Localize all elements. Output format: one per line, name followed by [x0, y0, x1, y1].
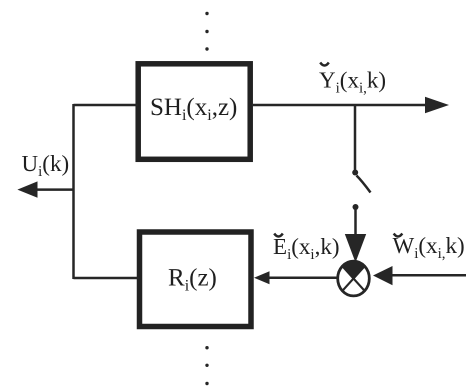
- block R_i(z): [140, 232, 252, 327]
- svg-text:Yi(xi,k): Yi(xi,k): [319, 68, 386, 97]
- label Y_i(x_i,k): [319, 63, 386, 97]
- bottom ellipsis dots: [205, 346, 208, 385]
- breve over Y: [320, 63, 329, 66]
- wire switch to summing junction: [354, 207, 357, 240]
- arrowhead down into summing junction: [345, 234, 366, 263]
- svg-text:Wi(xi,k): Wi(xi,k): [393, 233, 465, 262]
- arrowhead W into summing junction: [373, 266, 393, 285]
- switch contact lower dot: [353, 204, 359, 210]
- wire U output: [36, 188, 75, 191]
- switch arm: [357, 176, 371, 193]
- wire W input from right edge: [390, 274, 466, 277]
- wire junction drop from output line: [354, 105, 357, 171]
- wire left feedback rail: [74, 104, 140, 279]
- top ellipsis dots: [205, 12, 208, 51]
- svg-text:Ri(z): Ri(z): [168, 265, 217, 295]
- arrowhead into R block: [254, 271, 270, 284]
- svg-text:Ei(xi,k): Ei(xi,k): [273, 234, 340, 263]
- summing junction circle with X: [338, 261, 370, 296]
- wire SH output to right arrow: [253, 104, 429, 107]
- switch contact upper dot: [352, 170, 358, 176]
- svg-text:SHi(xi,z): SHi(xi,z): [150, 94, 237, 124]
- arrowhead U output left: [17, 181, 37, 197]
- arrowhead right output: [425, 97, 449, 113]
- label E_i(x_i,k): [273, 234, 340, 264]
- block SH_i(x_i,z): [138, 64, 250, 160]
- label W_i(x_i,k): [393, 233, 465, 262]
- svg-text:Ui(k): Ui(k): [22, 151, 70, 180]
- wire summing junction to R block: [268, 276, 338, 279]
